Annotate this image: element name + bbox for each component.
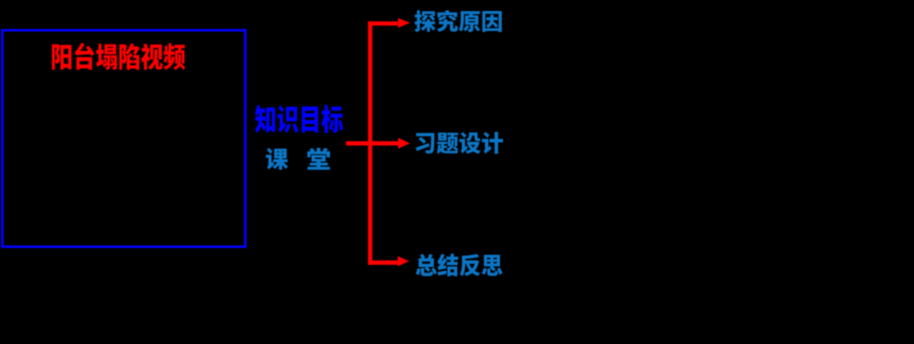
arrowhead bottom (398, 256, 409, 266)
arrow trunk: vertical red line (368, 21, 372, 265)
arrowhead middle (398, 138, 410, 149)
text: 课 (center label line 2 char 1, denim blue) (266, 148, 288, 170)
text: 习题设计 (branch label 2) (416, 132, 503, 154)
arrow to 探究原因: top horizontal shaft (368, 21, 398, 25)
text: 阳台塌陷视频 (box title, red) (52, 43, 185, 70)
text: 堂 (center label line 2 char 2, denim blue) (307, 148, 330, 170)
text: 总结反思 (branch label 3) (416, 254, 503, 277)
video frame box (blue rectangle) (2, 30, 245, 247)
arrow to 习题设计: middle horizontal shaft (346, 141, 399, 145)
text: 知识目标 (center label line 1, blue) (255, 105, 343, 133)
arrowhead top (398, 18, 410, 28)
arrow to 总结反思: bottom horizontal shaft (368, 260, 399, 264)
text: 探究原因 (branch label 1) (414, 10, 501, 32)
